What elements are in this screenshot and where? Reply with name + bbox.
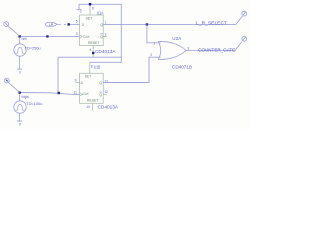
junction (RESET pin 4)	[92, 52, 94, 54]
svg-text:4: 4	[90, 48, 92, 52]
wire: SET/RESET tie net (U1A SET to U1B SET)	[79, 4, 121, 62]
pin numbers U1B	[74, 64, 108, 109]
svg-text:5: 5	[76, 20, 78, 24]
ground	[77, 4, 82, 9]
svg-text:SET: SET	[86, 16, 93, 20]
svg-text:Vleft: Vleft	[21, 37, 27, 41]
ground	[17, 120, 22, 122]
OR gate U2A	[158, 41, 236, 59]
svg-text:CD4013A: CD4013A	[98, 105, 119, 110]
svg-text:0: 0	[19, 122, 22, 127]
svg-text:COUNTER_GATE: COUNTER_GATE	[198, 47, 235, 53]
junction	[58, 92, 60, 94]
svg-text:LR: LR	[49, 23, 54, 27]
svg-text:L_R_SELECT: L_R_SELECT	[196, 20, 227, 26]
svg-text:Q: Q	[99, 81, 102, 85]
wire Q13 of U1B to OR gate input 2	[103, 57, 160, 82]
junction	[68, 23, 70, 25]
svg-text:U1A: U1A	[97, 10, 104, 15]
junction	[18, 35, 20, 37]
wire: vertical to Vright net	[57, 57, 59, 93]
ground	[17, 68, 22, 70]
svg-text:1: 1	[153, 41, 155, 45]
svg-text:1: 1	[105, 20, 107, 24]
off-page connector COUNTER_GATE	[236, 36, 247, 49]
svg-text:3: 3	[187, 46, 189, 50]
svg-text:CD4013A: CD4013A	[95, 49, 116, 54]
svg-text:0: 0	[19, 70, 22, 75]
connector pad	[6, 80, 8, 82]
svg-text:SET: SET	[85, 75, 92, 79]
svg-text:RESET: RESET	[87, 99, 98, 103]
svg-text:U1B: U1B	[94, 65, 100, 70]
svg-text:12: 12	[104, 90, 108, 94]
svg-text:U2A: U2A	[172, 36, 181, 41]
svg-text:9: 9	[75, 79, 77, 83]
U1A pin name labels	[82, 16, 104, 44]
svg-text:D: D	[82, 23, 85, 27]
svg-text:RESET: RESET	[88, 41, 99, 45]
svg-text:D: D	[81, 81, 84, 85]
off-page connector top-left	[4, 22, 20, 36]
svg-text:Q: Q	[100, 23, 103, 27]
D flip-flop U1B	[76, 62, 107, 110]
svg-text:CD4071B: CD4071B	[172, 65, 192, 70]
D flip-flop U1A	[80, 4, 107, 57]
node: Vleft to CLK wire	[20, 35, 80, 37]
svg-text:Vright: Vright	[21, 95, 30, 99]
svg-text:Q: Q	[100, 35, 103, 39]
svg-text:8: 8	[91, 64, 93, 68]
junction	[146, 23, 148, 25]
off-page connector bottom-left	[4, 78, 19, 92]
svg-text:CLK: CLK	[82, 92, 89, 96]
svg-text:6: 6	[92, 7, 94, 11]
wire Q1 of U1A to the right	[103, 23, 236, 25]
svg-text:3: 3	[76, 32, 78, 36]
global port (D input of U1A)	[46, 23, 80, 27]
svg-text:TD=250u: TD=250u	[25, 45, 41, 50]
svg-text:Q: Q	[99, 93, 102, 97]
U1B pin name labels	[81, 75, 103, 103]
wire Vright to CLK of U1B	[20, 93, 80, 95]
svg-text:CLK: CLK	[83, 35, 90, 39]
wire to OR gate input 1	[147, 25, 161, 43]
svg-text:2: 2	[150, 53, 152, 57]
svg-text:10: 10	[86, 105, 90, 109]
junction	[18, 91, 20, 93]
svg-text:0: 0	[80, 10, 82, 14]
pin numbers U2A	[150, 41, 189, 57]
voltage source Vleft	[14, 37, 26, 69]
wire: U1A RESET row	[58, 56, 121, 58]
voltage source Vright	[14, 94, 26, 121]
junction	[46, 35, 48, 37]
svg-text:11: 11	[74, 90, 78, 94]
svg-text:2: 2	[105, 32, 107, 36]
svg-text:TD=100u: TD=100u	[26, 101, 42, 106]
pin numbers U1A	[76, 7, 107, 53]
off-page connector L_R_SELECT	[236, 11, 247, 24]
junction (SET pin 6)	[89, 3, 92, 6]
